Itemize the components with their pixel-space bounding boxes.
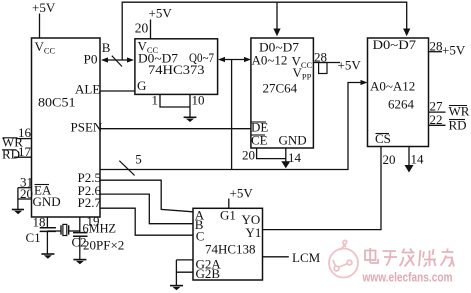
ground symbol under C1 — [41, 253, 54, 255]
ground symbol under 74HC373 — [184, 116, 197, 118]
wire pin19 to C2 — [79, 217, 81, 232]
svg-text:+5V: +5V — [338, 58, 362, 73]
arrowhead ground 6264 pin14 — [405, 165, 414, 173]
svg-text:G1: G1 — [220, 208, 236, 223]
chip 74HC138 box — [193, 208, 263, 280]
wire +5V stem 74HC138 — [228, 199, 230, 209]
svg-text:27C64: 27C64 — [263, 81, 298, 96]
svg-text:20: 20 — [135, 21, 149, 36]
wire branch to 27C64 D0-D7 — [276, 2, 278, 29]
wire top data bus — [122, 2, 407, 59]
svg-text:20: 20 — [383, 152, 396, 167]
arrowhead right into 6264 A0-A12 — [361, 80, 368, 85]
svg-text:D0~D7: D0~D7 — [373, 37, 417, 52]
svg-text:G: G — [137, 78, 146, 93]
wire P0 bus arrow — [104, 59, 131, 61]
wire 80C51 pin16 WR — [16, 138, 32, 140]
arrowhead down into 6264 — [403, 29, 410, 37]
chip 27C64 box — [251, 38, 314, 148]
svg-text:A0~A12: A0~A12 — [370, 79, 415, 94]
crystal Y1 — [61, 225, 69, 234]
svg-text:20: 20 — [242, 148, 255, 163]
wire C1 to ground — [46, 231, 48, 253]
wire 80C51 pin20 GND — [18, 198, 32, 200]
wire EA GND to ground — [17, 188, 19, 210]
bus slash B — [112, 56, 122, 67]
ground symbol under C2 — [73, 259, 86, 261]
svg-text:C1: C1 — [26, 230, 41, 245]
watermark text dianzifashaoyou — [365, 248, 454, 267]
svg-text:G2B: G2B — [196, 266, 221, 281]
wire 80C51 pin17 RD — [14, 156, 32, 158]
wire 6264 pin22 RD — [429, 124, 446, 126]
wire 6264 pin27 WR — [429, 111, 446, 113]
svg-text:GND: GND — [279, 133, 307, 148]
wire pin18 to C1 — [46, 217, 48, 227]
wire PSEN to OE — [100, 128, 251, 130]
arrowhead ground 27C64 pin14 — [281, 161, 290, 168]
wire crystal left — [47, 230, 60, 232]
svg-text:+5V: +5V — [442, 43, 466, 58]
svg-text:22: 22 — [430, 112, 443, 127]
svg-text:C: C — [196, 229, 205, 244]
bus slash 5 — [119, 161, 134, 176]
svg-text:+5V: +5V — [149, 6, 173, 21]
27C64 Vpp loop rectangle — [319, 63, 327, 74]
svg-text:A0~12: A0~12 — [252, 53, 288, 68]
wire P2.5 to A — [100, 180, 193, 212]
wire Y2 to LCM — [263, 256, 289, 258]
chip 80C51 box — [32, 38, 101, 217]
capacitor C2 — [73, 233, 88, 237]
ground symbol EA/GND — [12, 209, 24, 211]
wire 27C64 CE to ground — [257, 148, 286, 162]
chip 74HC373 box — [135, 39, 218, 95]
svg-text:ALE: ALE — [75, 82, 100, 97]
wire address bus 5 to 6264 A0-A12 — [100, 83, 363, 170]
wire +5V stem 74HC373 — [150, 20, 152, 39]
svg-text:6MHZ: 6MHZ — [83, 221, 117, 236]
wire crystal right — [69, 230, 80, 232]
svg-text:B: B — [102, 40, 111, 55]
arrowhead right into 74HC373 — [127, 57, 134, 62]
svg-text:28: 28 — [430, 39, 443, 54]
svg-text:RD: RD — [2, 147, 20, 162]
wire 27C64 pin28 to +5V — [313, 62, 340, 64]
svg-text:14: 14 — [288, 150, 302, 165]
wire ALE to G — [100, 90, 135, 92]
svg-text:VCC: VCC — [35, 39, 56, 56]
wire 80C51 pin31 EA — [18, 187, 32, 189]
wire P2.6 to B — [100, 194, 193, 224]
svg-text:GND: GND — [33, 194, 61, 209]
wire G2A G2B to ground — [176, 260, 193, 285]
svg-text:14: 14 — [411, 152, 425, 167]
wire 6264 pin14 ground — [408, 147, 410, 166]
wire 6264 pin28 to +5V — [429, 51, 443, 53]
wire Q0~7 to A0~12 arrow — [221, 59, 248, 61]
svg-text:80C51: 80C51 — [38, 95, 76, 110]
ground symbol under 74HC138 — [170, 285, 183, 287]
svg-text:P0: P0 — [84, 52, 98, 67]
svg-text:LCM: LCM — [292, 250, 321, 265]
wire P2 address join vertical — [231, 60, 233, 170]
arrowhead right into A0~12 — [244, 57, 251, 62]
svg-text:20PF×2: 20PF×2 — [83, 238, 124, 253]
svg-text:18: 18 — [33, 215, 46, 230]
svg-text:74HC373: 74HC373 — [148, 62, 205, 77]
svg-text:5: 5 — [135, 152, 142, 167]
wire +5V stem 80C51 — [39, 14, 41, 39]
chip 6264 box — [368, 38, 429, 147]
arrowhead left P0 — [101, 57, 108, 62]
svg-text:PSEN: PSEN — [71, 120, 103, 135]
wire C2 to ground — [79, 236, 81, 259]
wire 74HC373 pin1 pin10 ground — [160, 94, 190, 116]
svg-text:20: 20 — [20, 186, 33, 201]
svg-text:www.elecfans.com: www.elecfans.com — [362, 271, 453, 285]
svg-text:1: 1 — [152, 93, 159, 108]
svg-text:Y1: Y1 — [246, 225, 262, 240]
wire P2.7 to C — [100, 208, 193, 235]
svg-text:74HC138: 74HC138 — [205, 242, 256, 257]
arrowhead left into Q0~7 — [218, 57, 225, 62]
svg-text:P2.7: P2.7 — [78, 195, 102, 210]
svg-text:+5V: +5V — [32, 0, 56, 15]
svg-text:+5V: +5V — [230, 186, 254, 201]
wire Y1 to CS — [263, 147, 382, 230]
watermark logo circle — [329, 240, 358, 277]
capacitor C1 — [40, 228, 56, 232]
svg-text:28: 28 — [314, 50, 327, 65]
svg-text:10: 10 — [192, 93, 205, 108]
arrowhead down into 27C64 — [273, 29, 280, 37]
svg-text:6264: 6264 — [388, 97, 415, 112]
